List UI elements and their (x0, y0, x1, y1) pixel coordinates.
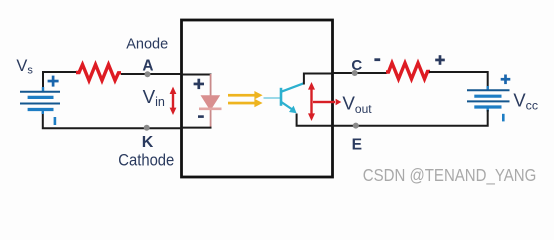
wire collector to top rail (304, 74, 332, 85)
node C junction dot (352, 70, 358, 76)
Vout measurement arrow horizontal (313, 99, 341, 105)
node A junction dot (145, 71, 151, 77)
LED plus polarity mark (194, 79, 204, 89)
svg-text:E: E (352, 136, 362, 153)
wire resistor to box left edge (121, 73, 182, 75)
svg-text:Cathode: Cathode (118, 150, 174, 169)
optocoupler package outline U1 (182, 20, 333, 177)
resistor R2 (386, 63, 430, 79)
wire box edge to LED cathode (182, 127, 212, 129)
wire resistor R2 to battery Vcc positive (429, 72, 488, 89)
wire battery Vs negative to node K (43, 112, 182, 128)
node K junction dot (144, 125, 150, 131)
Vin measurement arrow (170, 87, 177, 115)
battery Vs minus polarity tick (54, 117, 57, 125)
wire box edge to LED anode (182, 74, 212, 76)
light emission arrows (228, 91, 263, 107)
LED minus polarity mark (198, 115, 204, 118)
wire emitter to bottom rail (297, 114, 332, 126)
svg-text:Anode: Anode (126, 37, 168, 53)
LED D1 (199, 74, 222, 128)
battery Vs plus polarity mark (48, 76, 59, 87)
svg-text:CSDN @TENAND_YANG: CSDN @TENAND_YANG (363, 165, 537, 185)
battery Vs (20, 87, 60, 114)
Vout measurement arrow vertical (308, 82, 315, 121)
battery Vcc (467, 86, 510, 112)
node E junction dot (353, 123, 359, 129)
battery Vcc plus polarity mark (501, 75, 511, 85)
phototransistor Q1 (264, 83, 305, 113)
resistor R2 plus polarity mark (435, 55, 445, 65)
svg-text:C: C (351, 57, 362, 74)
resistor R1 (76, 65, 121, 81)
wire battery Vs positive to resistor (43, 72, 77, 89)
svg-text:K: K (142, 134, 154, 151)
svg-text:A: A (142, 58, 153, 75)
wire box edge to resistor R2 (331, 72, 387, 74)
battery Vcc minus polarity tick (502, 114, 505, 122)
wire battery Vcc negative to node E (332, 110, 488, 126)
resistor R2 minus polarity mark (374, 58, 380, 61)
